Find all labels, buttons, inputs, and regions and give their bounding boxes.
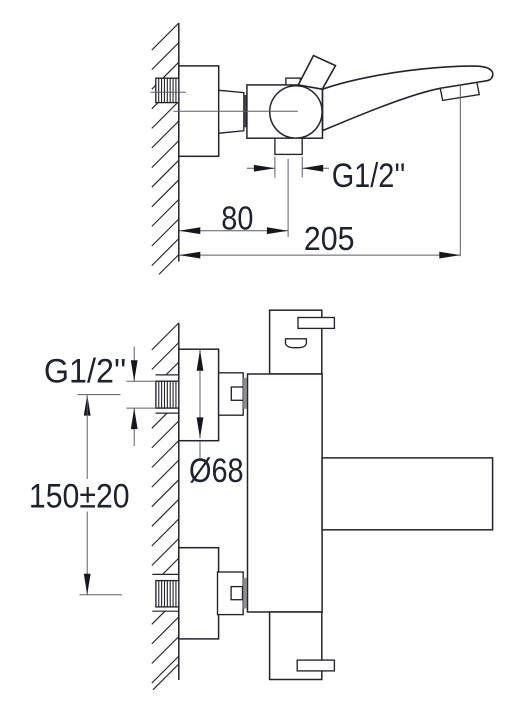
connector cone [219,90,244,133]
label G1/2 front [44,353,126,391]
extension line outlet left [274,157,276,178]
svg-text:Ø68: Ø68 [189,451,244,490]
wall hatching (top view) [152,23,179,266]
spout (front) [322,458,493,530]
bottom thread pipe (front) [156,581,179,607]
dimension o68 [197,350,204,459]
label 205 [304,220,355,257]
cartridge circle [270,86,322,138]
top section (handle housing, front) [270,310,322,374]
extension line outlet right [301,157,303,178]
wall escutcheon (top view) [179,66,219,156]
spout (top view) [323,66,493,130]
extension line outlet center [287,159,289,237]
dimension 150+-20 [84,395,91,595]
seal strip (top view) [244,95,247,127]
top seal strip (front) [243,378,247,409]
top escutcheon (front) [179,349,219,441]
inlet thread pipe (top view) [156,78,179,102]
extra hatch stroke (top view bottom) [159,255,179,275]
wall hole blank bottom [151,575,179,611]
wall hatching (bottom view) [152,323,179,683]
150 extension bottom [80,594,123,596]
bottom tab bar [297,660,334,671]
aerator (top view) [440,83,479,101]
label G1/2 top view [332,156,406,195]
outlet union (top view) [275,138,302,154]
bottom connector (front) [218,572,244,615]
top thread pipe (front) [156,381,179,408]
top tab bar [298,318,334,329]
bottom escutcheon (front) [179,548,219,639]
label 80 [221,200,253,237]
svg-text:G1/2'': G1/2'' [332,156,406,195]
label 150+-20 [29,477,130,515]
mixer body (top view) [247,85,323,138]
svg-text:205: 205 [304,220,355,257]
wall line (bottom view) [178,323,180,680]
150 extension top [78,394,121,396]
dimension G1/2 top view [247,165,329,172]
mixer body (front) [248,374,323,612]
top connector square [231,387,243,400]
pipe hole top lines [156,375,179,413]
bottom connector square [231,587,242,600]
wall hole blank top [151,376,179,413]
bottom seal strip (front) [243,578,247,609]
dimension 80 [179,227,288,234]
thread centerline (top view) [151,91,186,93]
handle base tab [286,78,300,85]
svg-text:G1/2'': G1/2'' [44,353,126,391]
pipe hole bottom lines [152,574,179,611]
dimension 205 [179,252,460,259]
svg-text:80: 80 [221,200,253,237]
label o68 [189,451,244,490]
top connector (front) [219,373,244,415]
G1/2 extension lines (front) [127,381,156,408]
extra hatch stroke (bottom view bottom) [153,664,179,690]
logo notch [286,339,307,348]
body centerline (top view) [174,110,299,112]
dimension G1/2 (front) [131,347,138,447]
lever handle (top view) [298,56,335,90]
wall line (top view) [178,23,180,262]
extension line aerator [459,84,461,256]
svg-text:150±20: 150±20 [29,477,130,515]
bottom section (front) [270,612,322,680]
